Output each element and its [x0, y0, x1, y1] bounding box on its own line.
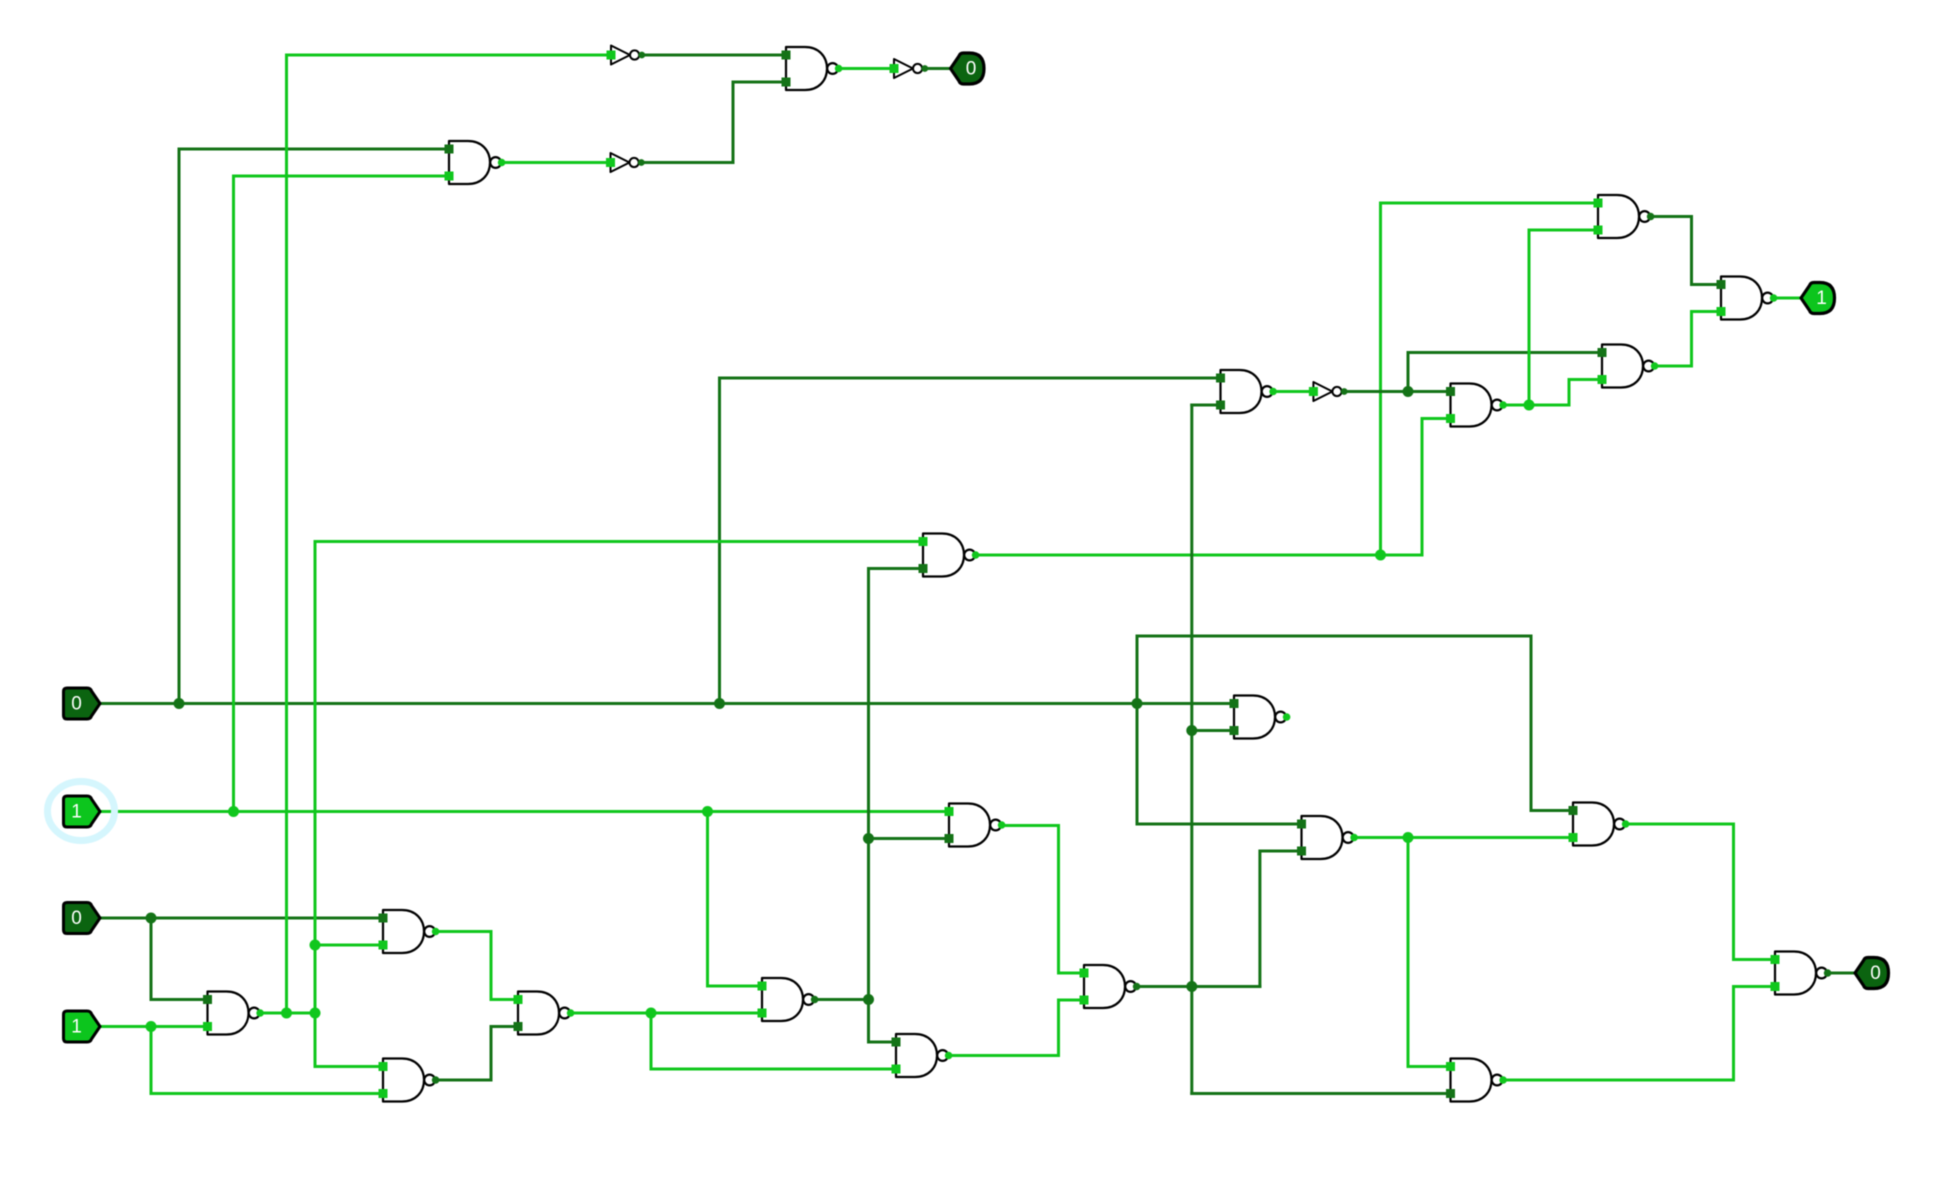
- output pin OUT2 value 1: [1801, 283, 1835, 314]
- wire net-U19.out to U21.A: [1626, 824, 1776, 960]
- wire net-U9.out to U11.B: [949, 1000, 1085, 1056]
- svg-text:1: 1: [71, 1017, 82, 1038]
- wire net-IN1 branch to U18.A: [1137, 704, 1302, 825]
- svg-text:0: 0: [1870, 963, 1881, 984]
- nand gate U15: [1594, 195, 1655, 238]
- inverter X4: [1309, 382, 1348, 401]
- svg-text:1: 1: [71, 802, 82, 823]
- node junction X4-a: [1403, 386, 1414, 397]
- wire net-U8.out row to U3.B: [869, 567, 924, 570]
- wire net-U13.out to X4: [1273, 390, 1313, 393]
- node junction IN1-a: [174, 698, 185, 709]
- svg-text:0: 0: [966, 59, 977, 80]
- node junction U5-a: [281, 1008, 292, 1019]
- wire net-U2.out to X2: [839, 67, 895, 70]
- nand gate U3: [919, 534, 980, 577]
- wire net-U5.out left riser to X1: [287, 55, 612, 1013]
- node junction U3-a: [1375, 550, 1386, 561]
- wire net-U5.out row to U3.A: [315, 540, 923, 543]
- nand gate U5: [203, 992, 264, 1035]
- wire net-IN3 row to U4.A: [100, 917, 383, 920]
- wire net-U18.out to U19.B: [1354, 836, 1573, 839]
- nand gate U14: [1446, 384, 1507, 427]
- wire net-X4.out to U14.A: [1343, 390, 1451, 393]
- wire net-IN2 branch down to U8.A: [708, 812, 763, 987]
- wire net-X1.out to U2.A: [640, 54, 786, 57]
- nand gate U9: [892, 1034, 953, 1077]
- wire net-IN2 row to U10.A: [100, 810, 949, 813]
- wire net-U11.out to U12.B: [1192, 729, 1234, 732]
- nand gate U6: [379, 1059, 440, 1102]
- inverter X1: [607, 46, 646, 65]
- wire net-U11.out to U20.B: [1192, 1092, 1451, 1095]
- wire net-IN1 row to U12: [100, 702, 1234, 705]
- wire net-IN3 branch to U5.A: [151, 918, 208, 1000]
- node junction U8-b: [863, 994, 874, 1005]
- output pin OUT3 value 0: [1855, 958, 1889, 989]
- svg-text:1: 1: [1816, 288, 1827, 309]
- wire net-U11.out riser: [1190, 405, 1193, 1094]
- wire net-U11.out to U13.B: [1192, 404, 1221, 407]
- input pin IN2 value 1: [64, 796, 101, 827]
- nand gate U11: [1080, 965, 1141, 1008]
- input pin IN1 value 0: [64, 688, 101, 719]
- svg-text:0: 0: [71, 908, 82, 929]
- wire net-IN4 row to U5.B: [100, 1025, 208, 1028]
- nand gate U20: [1446, 1059, 1507, 1102]
- node junction U5-b: [310, 1008, 321, 1019]
- input pin IN3 value 0: [64, 903, 101, 934]
- nand gate U10: [945, 804, 1006, 847]
- node junction U8-a: [863, 833, 874, 844]
- nand gate U17: [1717, 277, 1778, 320]
- node junction IN2-b: [702, 806, 713, 817]
- wire net-U4.out to U7.A: [436, 932, 519, 1000]
- wire net-U17.out to OUT2: [1774, 297, 1802, 300]
- input pin IN4 value 1: [64, 1011, 101, 1042]
- wire net-X2.out to OUT1: [923, 67, 950, 70]
- wire net-U8.out stub: [815, 998, 869, 1001]
- wire net-U7.out branch to U9.B: [651, 1013, 896, 1069]
- node junction U11-a: [1186, 725, 1197, 736]
- node junction IN3-a: [146, 913, 157, 924]
- nand gate U12: [1230, 696, 1291, 739]
- nand gate U8: [758, 978, 819, 1021]
- svg-text:0: 0: [71, 694, 82, 715]
- wire net-U20.out to U21.B: [1503, 987, 1775, 1081]
- nand gate U7: [514, 992, 575, 1035]
- wire net-U5.out right riser: [314, 542, 317, 1067]
- nand gate U2: [782, 47, 843, 90]
- wire net-U11.out row: [1137, 985, 1260, 988]
- node junction U5-c: [310, 940, 321, 951]
- nand gate U21: [1771, 952, 1832, 995]
- wire net-U5.out stub: [260, 1012, 315, 1015]
- wire net-IN1 branch up to U1.A: [179, 149, 449, 704]
- nand gate U4: [379, 910, 440, 953]
- nand gate U16: [1598, 345, 1659, 388]
- wire net-U16.out to U17.B: [1655, 312, 1722, 367]
- node junction IN1-c: [1132, 698, 1143, 709]
- wire net-IN2 branch up to U1.B: [234, 176, 450, 812]
- wire net-U5.out branch to U6.A: [315, 1065, 383, 1068]
- node junction U18-a: [1403, 832, 1414, 843]
- wire net-U11.out to U18.B: [1260, 851, 1302, 987]
- wire net-IN1 branch to U19.A: [1137, 636, 1573, 811]
- output pin OUT1 value 0: [951, 53, 985, 84]
- nand gate U1: [445, 141, 506, 184]
- node junction U14-a: [1524, 400, 1535, 411]
- wire net-IN4 branch to U6.B: [151, 1027, 383, 1094]
- nand gate U13: [1216, 370, 1277, 413]
- nand gate U18: [1297, 816, 1358, 859]
- wire net-U14.out branch to U15.B: [1529, 230, 1598, 405]
- wire net-U7.out to U8.B: [571, 1012, 763, 1015]
- node junction IN2-a: [228, 806, 239, 817]
- wire net-X4.out branch to U16.A: [1408, 353, 1602, 392]
- node junction U11-b: [1186, 981, 1197, 992]
- wire net-U10.out to U11.A: [1002, 826, 1085, 974]
- inverter X3: [606, 153, 645, 172]
- node junction U7-a: [646, 1008, 657, 1019]
- wire net-IN1 branch up to U13.A: [720, 378, 1221, 704]
- node junction IN1-b: [714, 698, 725, 709]
- wire net-U15.out to U17.A: [1651, 217, 1722, 285]
- wire net-U8.out branch to U10.B: [869, 837, 950, 840]
- selection halo around input IN2: [48, 782, 115, 841]
- node junction IN4-a: [146, 1021, 157, 1032]
- nand gate U19: [1569, 803, 1630, 846]
- inverter X2: [890, 59, 929, 78]
- wire net-U21.out to OUT3: [1828, 972, 1856, 975]
- wire net-U6.out to U7.B: [436, 1027, 519, 1081]
- wire net-U3.out branch to U15.A: [1381, 203, 1599, 555]
- wire net-U1.out to X3: [502, 161, 611, 164]
- wire net-U5.out branch to U4.B: [315, 944, 383, 947]
- wire net-U14.out to U16.B: [1503, 380, 1602, 406]
- wire net-U8.out riser: [869, 569, 897, 1043]
- wire net-U3.out row: [976, 419, 1451, 556]
- wire net-U18.out branch to U20.A: [1408, 838, 1451, 1067]
- wire net-X3.out to U2.B: [640, 82, 786, 163]
